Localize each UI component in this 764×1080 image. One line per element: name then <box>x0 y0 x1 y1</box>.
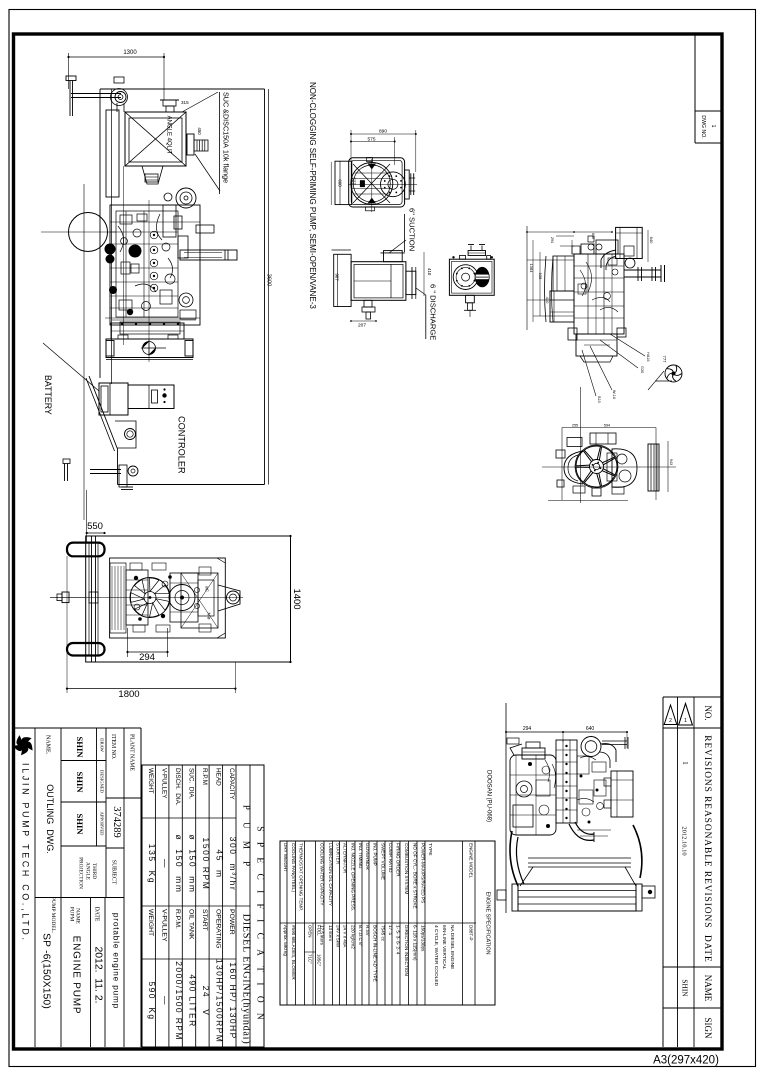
engine small fittings <box>120 215 132 224</box>
svg-text:B10: B10 <box>597 396 601 403</box>
svg-text:PLANT NAME: PLANT NAME <box>129 734 135 772</box>
air cleaner <box>616 227 643 258</box>
svg-text:STARTER: STARTER <box>336 843 341 865</box>
top foot <box>367 158 373 162</box>
radiator hatch plan <box>111 566 113 630</box>
svg-text:ENGINE SPECIFICATION: ENGINE SPECIFICATION <box>485 891 491 954</box>
svg-text:COOLING WATER CAPACITY: COOLING WATER CAPACITY <box>319 843 324 905</box>
svg-text:NAME.: NAME. <box>45 735 51 755</box>
engine specification table <box>280 841 495 1005</box>
centerline horizontal <box>50 596 243 598</box>
svg-text:160ps/130ps: 160ps/130ps <box>421 925 426 952</box>
suction flange circle <box>453 265 478 290</box>
pump discharge flange <box>187 134 194 155</box>
engine block plan <box>181 573 218 628</box>
svg-text:REVISIONS REASONABLE REVISIONS: REVISIONS REASONABLE REVISIONS DATE <box>702 735 712 962</box>
svg-text:590 Kg: 590 Kg <box>147 981 157 1020</box>
svg-text:7545 cc: 7545 cc <box>381 925 386 942</box>
inner frame <box>110 558 226 638</box>
svg-text:BOSCH IN-LINE"AD" TYPE: BOSCH IN-LINE"AD" TYPE <box>373 925 378 982</box>
svg-text:V-PULLEY: V-PULLEY <box>161 909 168 942</box>
svg-text:POWER: POWER <box>228 909 235 935</box>
dim 1400 <box>290 536 292 662</box>
svg-text:OPEN: OPEN <box>308 925 313 937</box>
injection pump <box>163 205 176 237</box>
shaft <box>466 295 475 303</box>
svg-text:594: 594 <box>604 424 610 428</box>
svg-text:COMP. RATIO: COMP. RATIO <box>388 843 393 873</box>
flywheel housing <box>550 291 574 322</box>
controller <box>128 385 174 409</box>
svg-text:APPORVED: APPORVED <box>100 812 105 837</box>
discharge stub right <box>406 271 416 294</box>
battery <box>99 383 128 415</box>
svg-text:START: START <box>201 909 208 931</box>
revisions table <box>663 696 721 698</box>
svg-text:294: 294 <box>139 652 155 663</box>
engine silhouette left <box>564 451 583 484</box>
svg-text:THIRD: THIRD <box>91 863 97 879</box>
svg-text:SUC &DISC150A 10k flange: SUC &DISC150A 10k flange <box>222 92 231 183</box>
svg-text:Approx. 590 kg: Approx. 590 kg <box>283 925 288 956</box>
svg-text:ILJIN PUMP TECH CO.,LTD.: ILJIN PUMP TECH CO.,LTD. <box>21 763 31 943</box>
svg-text:ITEM NO.: ITEM NO. <box>110 734 116 760</box>
impeller dark oval <box>475 267 489 287</box>
svg-text:1400: 1400 <box>291 588 302 609</box>
svg-text:POWER-MAX/PS/RATED PS: POWER-MAX/PS/RATED PS <box>421 843 426 903</box>
base frame <box>106 339 193 358</box>
left bracket <box>335 161 352 204</box>
company logo pinwheel <box>22 745 28 754</box>
svg-text:ANGLE: ANGLE <box>85 862 91 880</box>
exhaust elbow <box>569 824 594 840</box>
engine lower detail <box>120 322 180 334</box>
svg-text:P U M P: P U M P <box>242 805 252 871</box>
view: pump side <box>351 262 406 301</box>
battery label <box>43 343 99 391</box>
svg-text:OPERATING: OPERATING <box>214 909 221 949</box>
right air box <box>611 771 633 817</box>
valve caps <box>150 231 158 239</box>
svg-text:777: 777 <box>662 356 667 364</box>
svg-text:SUC. DIA.: SUC. DIA. <box>188 768 195 799</box>
view: engine rear w/ radiator <box>505 703 507 913</box>
view: engine front (fan) <box>575 445 618 488</box>
svg-text:374289: 374289 <box>111 806 122 838</box>
svg-text:LUBRICATION OIL CAPACITY: LUBRICATION OIL CAPACITY <box>328 843 333 906</box>
svg-text:935: 935 <box>538 273 543 280</box>
svg-text:PROJECTION: PROJECTION <box>78 857 84 889</box>
svg-text:1: 1 <box>681 761 689 765</box>
svg-text:410: 410 <box>427 268 432 276</box>
svg-text:300 m³/hr: 300 m³/hr <box>228 837 238 892</box>
intake manifold <box>596 240 618 254</box>
volute circle <box>351 163 393 205</box>
svg-text:410: 410 <box>545 297 550 304</box>
svg-text:SHIN: SHIN <box>75 736 85 758</box>
svg-text:DWG NO.: DWG NO. <box>700 115 706 138</box>
svg-text:OUTLING DWG.: OUTLING DWG. <box>45 784 55 854</box>
coupling circles <box>176 188 196 208</box>
svg-text:B.T.D.C 8°: B.T.D.C 8° <box>358 925 363 947</box>
engine block <box>574 254 624 334</box>
tow bar bottom <box>90 469 121 471</box>
svg-text:907: 907 <box>335 273 340 281</box>
engine-radiator hoses <box>510 831 518 886</box>
fuel filters <box>105 244 116 255</box>
svg-text:640: 640 <box>586 726 595 732</box>
svg-text:24 V x 40A: 24 V x 40A <box>343 925 348 948</box>
svg-text:GOVERNOR: GOVERNOR <box>365 843 370 870</box>
axle <box>88 543 90 655</box>
svg-text:COMBUSTION SYSTEM: COMBUSTION SYSTEM <box>404 843 409 894</box>
svg-text:6 " DISCHARGE: 6 " DISCHARGE <box>429 284 438 340</box>
svg-text:NO.: NO. <box>703 705 713 720</box>
injection pipes rear <box>545 760 549 782</box>
svg-text:255: 255 <box>572 424 578 428</box>
svg-text:160 HP/ 130HP: 160 HP/ 130HP <box>228 962 238 1039</box>
svg-text:#590 6BLADES, BLOWER: #590 6BLADES, BLOWER <box>291 925 296 980</box>
svg-text:NO OF CYL.- BORE x STROKE: NO OF CYL.- BORE x STROKE <box>412 843 417 909</box>
svg-text:1: 1 <box>710 125 716 128</box>
svg-text:INJ. TIMING: INJ. TIMING <box>358 843 363 869</box>
svg-text:A3(297x420): A3(297x420) <box>653 1055 719 1067</box>
centerlines <box>580 387 582 503</box>
dim extensions right <box>647 230 649 262</box>
svg-text:PUMP MODEL.: PUMP MODEL. <box>50 897 56 933</box>
svg-text:V-PULLEY: V-PULLEY <box>161 768 168 799</box>
corner gussets <box>368 164 375 169</box>
svg-text:ENGINE MODEL: ENGINE MODEL <box>468 843 473 879</box>
svg-text:R.P.M: R.P.M <box>201 768 208 785</box>
svg-text:HA16: HA16 <box>646 352 650 362</box>
svg-text:DESIGNED: DESIGNED <box>100 770 105 794</box>
svg-text:SIGN: SIGN <box>703 1017 713 1039</box>
svg-text:1800: 1800 <box>118 689 139 700</box>
svg-text:—: — <box>161 859 171 869</box>
dim box <box>562 427 656 429</box>
injection lines <box>580 270 586 296</box>
svg-text:45 m: 45 m <box>214 849 224 878</box>
top stubs <box>459 256 465 260</box>
svg-text:BATTERY: BATTERY <box>43 375 53 415</box>
left engine mass <box>510 755 556 835</box>
svg-text:105C°: 105C° <box>317 954 322 966</box>
dim 294 <box>127 628 129 657</box>
svg-text:294: 294 <box>550 237 554 243</box>
svg-text:R.SV: R.SV <box>365 925 370 937</box>
radiator end view <box>648 444 659 491</box>
svg-text:CONTROLER: CONTROLER <box>177 416 187 474</box>
svg-text:—: — <box>161 996 171 1006</box>
svg-text:FIRING ORDER: FIRING ORDER <box>396 843 401 877</box>
front support pulley <box>111 89 128 106</box>
oil pan <box>576 334 617 356</box>
wheel <box>69 213 108 252</box>
svg-text:1384: 1384 <box>529 264 534 274</box>
pump casing <box>349 158 405 207</box>
svg-text:WEIGHT: WEIGHT <box>147 768 154 794</box>
svg-text:TYPE: TYPE <box>427 843 433 856</box>
svg-text:DISCH. DIA.: DISCH. DIA. <box>174 768 181 806</box>
svg-text:N-ø: N-ø <box>207 613 212 620</box>
svg-text:DIESEL ENGINE(hyundai): DIESEL ENGINE(hyundai) <box>241 914 252 1045</box>
lifting bracket <box>602 740 627 742</box>
svg-text:490 LITER: 490 LITER <box>188 974 198 1027</box>
svg-text:2012.10.10: 2012.10.10 <box>681 826 688 855</box>
left dim lines <box>526 226 528 330</box>
svg-text:OIL TANK: OIL TANK <box>188 909 195 940</box>
svg-text:SHIN: SHIN <box>75 771 85 793</box>
engine mid details rear <box>577 756 589 774</box>
svg-text:1500 RPM: 1500 RPM <box>201 838 211 891</box>
svg-text:130HP/1500RPM: 130HP/1500RPM <box>214 959 224 1043</box>
svg-text:INJ. PUMP: INJ. PUMP <box>373 843 378 866</box>
svg-text:protable engine pump: protable engine pump <box>112 913 121 1009</box>
top components <box>567 438 582 447</box>
svg-text:24V x 5kW: 24V x 5kW <box>336 925 341 948</box>
svg-text:17 :1: 17 :1 <box>388 925 393 936</box>
svg-text:DIRECTION INJECTION: DIRECTION INJECTION <box>404 925 409 976</box>
svg-text:450: 450 <box>197 127 202 135</box>
svg-text:R.P.M.: R.P.M. <box>174 909 181 929</box>
rear jack <box>115 421 136 448</box>
svg-text:CAPACITY: CAPACITY <box>228 768 235 800</box>
svg-text:HEAD: HEAD <box>214 768 221 786</box>
skid upper band <box>111 323 184 339</box>
svg-text:13 liters: 13 liters <box>328 925 333 942</box>
engine cluster plan <box>130 578 170 618</box>
dim 3600 <box>268 89 270 485</box>
turbo circles <box>581 737 601 757</box>
svg-text:NA DIESEL ENGINE: NA DIESEL ENGINE <box>449 925 455 969</box>
svg-text:660: 660 <box>338 179 343 187</box>
svg-text:ANGLE 4QLIT: ANGLE 4QLIT <box>166 116 172 155</box>
plan cluster details <box>134 576 138 580</box>
tow bar top <box>66 76 76 81</box>
svg-text:COOLING FAN(STEEL): COOLING FAN(STEEL) <box>291 843 296 892</box>
svg-text:SWEPT VOLUME: SWEPT VOLUME <box>381 843 386 880</box>
top dim 294/640 <box>506 731 627 733</box>
trailer bed outline <box>100 88 265 90</box>
svg-text:DRY WEIGHT: DRY WEIGHT <box>283 843 288 872</box>
air intake hose <box>601 250 616 268</box>
svg-text:1: 1 <box>684 718 687 724</box>
valve cover top <box>522 748 545 759</box>
cylinder head band <box>556 740 577 823</box>
radiator <box>518 884 636 911</box>
svg-text:NON-CLOGGING SELF-PRIMING PUMP: NON-CLOGGING SELF-PRIMING PUMP, SEMI-OPE… <box>308 82 317 309</box>
svg-text:2012. 11. 2.: 2012. 11. 2. <box>93 946 104 1003</box>
centerlines <box>41 231 116 233</box>
svg-text:W-16: W-16 <box>612 390 616 399</box>
svg-text:øC: øC <box>205 586 210 592</box>
DWG NO box <box>694 35 696 143</box>
pump top flange <box>163 100 176 106</box>
exhaust pipe <box>180 250 237 260</box>
svg-text:2: 2 <box>669 718 672 724</box>
casing cross braces <box>353 164 390 203</box>
drain piping <box>364 300 372 307</box>
svg-text:D88T-P: D88T-P <box>468 925 473 941</box>
svg-text:6" SUCTION: 6" SUCTION <box>408 208 417 251</box>
svg-text:S P E C I F I C A T I O N: S P E C I F I C A T I O N <box>255 826 265 1023</box>
svg-text:640: 640 <box>649 237 654 244</box>
svg-text:ø 150 mm: ø 150 mm <box>188 835 198 894</box>
starter <box>179 293 193 307</box>
shroud <box>528 857 631 859</box>
left guard frame <box>106 110 119 197</box>
svg-text:PUPM: PUPM <box>69 907 75 922</box>
suc/disc label <box>182 92 218 112</box>
discharge stub <box>405 170 410 199</box>
fan rotation symbol <box>665 365 682 382</box>
svg-text:ALTERNATOR: ALTERNATOR <box>343 843 348 874</box>
svg-text:640: 640 <box>591 233 595 239</box>
centerlines pump front <box>371 159 373 212</box>
bell housing <box>142 166 163 184</box>
svg-text:DRAW: DRAW <box>100 738 105 752</box>
wheels <box>67 543 105 557</box>
svg-text:NAME: NAME <box>75 908 81 925</box>
svg-text:315: 315 <box>181 100 189 105</box>
pump body side <box>125 112 186 166</box>
svg-text:2000/1500 RPM: 2000/1500 RPM <box>174 961 184 1041</box>
svg-text:24 V: 24 V <box>201 986 211 1017</box>
mounts <box>497 890 506 900</box>
svg-text:6IN-LINE VERTICAL: 6IN-LINE VERTICAL <box>441 925 447 970</box>
suction stub top <box>384 251 403 262</box>
title block grid <box>14 727 142 729</box>
svg-text:1- 5- 3- 6- 2- 4: 1- 5- 3- 6- 2- 4 <box>396 925 401 955</box>
svg-text:890: 890 <box>379 129 387 135</box>
svg-text:527: 527 <box>352 177 357 185</box>
svg-text:INJ. NOZZLE OPENING PRESS.: INJ. NOZZLE OPENING PRESS. <box>350 843 355 911</box>
generator right <box>612 449 637 488</box>
deck outline <box>86 536 291 662</box>
left bracket <box>334 254 351 306</box>
engine mounts <box>568 328 577 340</box>
dim 1800 <box>67 688 235 690</box>
discharge label <box>416 288 426 295</box>
leader lines bottom <box>610 334 645 356</box>
svg-text:220 kg/cm2: 220 kg/cm2 <box>350 925 355 949</box>
svg-text:NAME: NAME <box>703 975 713 1002</box>
revision warning triangle 1 <box>679 704 693 726</box>
engine block side <box>110 205 200 325</box>
svg-text:6- 118 x 115(mm): 6- 118 x 115(mm) <box>412 925 417 961</box>
svg-text:4 CYCLE, WATER COOLED: 4 CYCLE, WATER COOLED <box>433 925 439 987</box>
pump plan <box>218 585 240 611</box>
svg-text:DOOSAN (PU-068): DOOSAN (PU-068) <box>486 770 492 822</box>
specification table <box>142 765 264 1047</box>
svg-text:135 Kg: 135 Kg <box>147 844 157 885</box>
svg-text:71C°: 71C° <box>308 954 313 964</box>
exhaust pipe upper <box>196 225 214 233</box>
svg-text:ø 150 mm: ø 150 mm <box>174 835 184 894</box>
svg-text:1300: 1300 <box>123 50 137 56</box>
svg-text:12.5 liters: 12.5 liters <box>319 925 324 946</box>
top dim line <box>527 231 612 233</box>
svg-text:WEIGHT: WEIGHT <box>147 909 154 936</box>
svg-text:3600: 3600 <box>266 274 272 286</box>
lifting point symbol <box>143 342 156 355</box>
svg-text:294: 294 <box>523 726 532 732</box>
svg-text:SHIN: SHIN <box>75 813 85 835</box>
svg-text:550: 550 <box>87 521 103 532</box>
svg-text:G20: G20 <box>640 366 644 373</box>
bottom shaft <box>592 488 601 496</box>
svg-text:ENGINE PUMP: ENGINE PUMP <box>71 936 82 1015</box>
svg-text:THERMOSTAT OPENING TEMP.: THERMOSTAT OPENING TEMP. <box>299 843 304 911</box>
suction label <box>389 240 406 253</box>
svg-text:943: 943 <box>669 459 673 465</box>
turbo detail <box>625 258 635 268</box>
svg-text:SUBJECT: SUBJECT <box>111 860 117 885</box>
svg-text:SHIN: SHIN <box>681 979 690 997</box>
hitch left <box>50 596 86 598</box>
svg-text:DATE: DATE <box>94 907 100 922</box>
exhaust pipe <box>624 269 661 271</box>
view: pump top <box>449 259 494 295</box>
shaft flange circle <box>381 172 406 197</box>
svg-text:207: 207 <box>358 323 366 329</box>
revision warning triangle 2 <box>664 705 677 725</box>
svg-text:SP -6(150X150): SP -6(150X150) <box>41 933 52 1009</box>
